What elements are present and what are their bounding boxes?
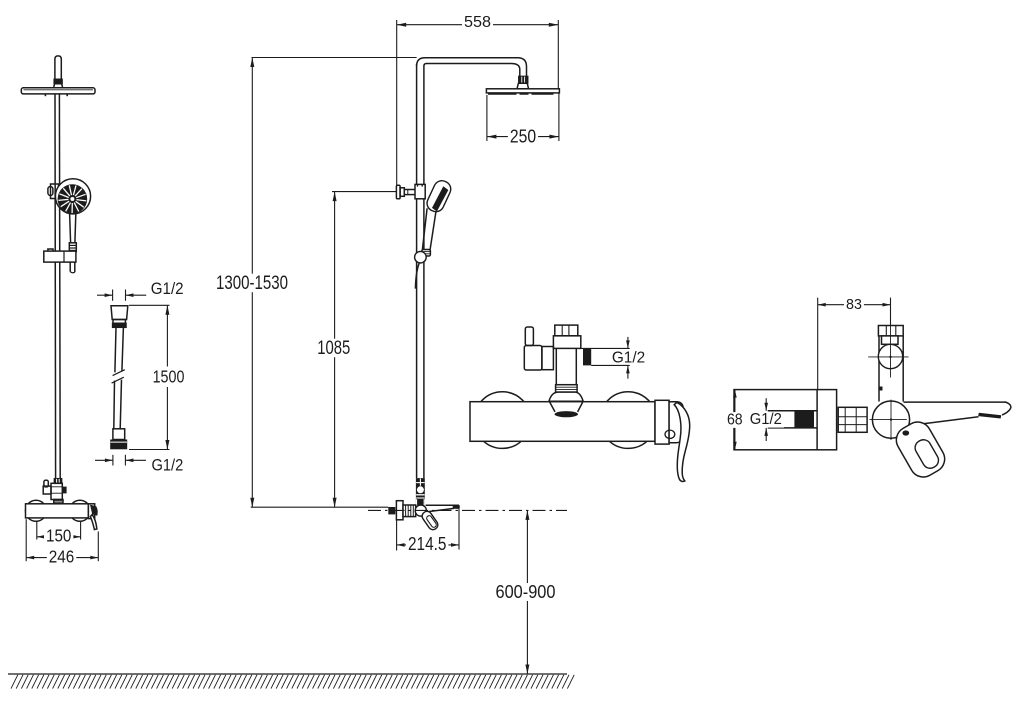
- svg-text:G1/2: G1/2: [152, 457, 184, 475]
- floor line: [8, 673, 567, 675]
- dimension 83 right extension line: [890, 298, 892, 326]
- svg-text:83: 83: [846, 296, 862, 313]
- dimension 83 text: [844, 297, 864, 312]
- slider ball joint: [415, 251, 427, 263]
- dimension 1500 text: [151, 368, 187, 385]
- figure 4 spout top line: [904, 401, 1006, 403]
- figure 1 hand shower handle: [70, 214, 76, 243]
- dimension 600-900 line and arrows: [525, 510, 529, 674]
- dimension 150 extension lines: [37, 522, 81, 540]
- hose top ferrule (dark): [113, 323, 126, 327]
- figure 4 spout aerator (dark): [978, 413, 1001, 419]
- dimension 68 line and arrows: [733, 390, 737, 450]
- svg-text:246: 246: [49, 547, 75, 567]
- svg-text:G1/2: G1/2: [151, 280, 184, 298]
- dimension 250 text: [508, 128, 538, 145]
- hose top G1/2 dimension ticks: [113, 290, 126, 301]
- figure 1 mixer left inlet circle: [26, 500, 47, 521]
- figure 1 hand shower head face circle: [55, 179, 90, 214]
- floor hatching: [11, 675, 574, 689]
- figure 4 cap neck: [882, 336, 899, 344]
- dimension 150 line and arrows: [37, 535, 81, 539]
- riser wall flange: [396, 185, 404, 199]
- figure 1 hand shower wall clamp: [48, 184, 59, 199]
- dimension 558 left extension line: [396, 20, 398, 185]
- hose bottom fitting (dark): [110, 440, 127, 450]
- figure 4 G1/2 text: [748, 412, 784, 428]
- dimension 83 left extension line: [817, 298, 819, 390]
- svg-text:1300-1530: 1300-1530: [216, 272, 288, 294]
- figure 4 G1/2 dimension arrows: [764, 398, 768, 441]
- main riser pipe vertical (front view): [417, 64, 424, 478]
- figure 1 diverter left arm: [43, 486, 51, 494]
- figure 1 overhead shower disc (edge view): [21, 88, 95, 94]
- figure 4 ball joint centerlines: [868, 298, 908, 378]
- figure 1 nub collar (dark): [54, 79, 62, 83]
- dimension 1300-1530 text: [214, 274, 290, 293]
- figure 1 riser pole (double line): [55, 94, 60, 479]
- figure 3 handle lever blade: [674, 402, 690, 481]
- wall outlet stub (dark): [388, 507, 395, 514]
- figure 1 sliding bracket on pole: [44, 249, 76, 262]
- hose lower tube: [114, 380, 122, 429]
- figure 4 handle paddle: [891, 417, 949, 482]
- figure 4 threaded connector: [838, 407, 867, 432]
- hand shower handle (front view): [422, 208, 436, 251]
- figure 3 handle cap: [669, 402, 683, 443]
- dimension 214.5 text: [406, 534, 448, 552]
- figure 4 wall box: [734, 390, 837, 450]
- hand shower hose lower curve: [415, 263, 419, 289]
- dimension 246 line and arrows: [26, 556, 98, 560]
- figure 3 diverter threaded ring: [556, 385, 578, 392]
- figure 4 top cap (threaded): [878, 326, 903, 336]
- dimension 246 extension lines: [26, 519, 98, 561]
- figure 4 housing dark mark: [879, 387, 882, 391]
- svg-text:G1/2: G1/2: [750, 411, 782, 428]
- figure 3 right inlet circle: [600, 392, 657, 449]
- overhead shower nut (hatched): [519, 76, 528, 83]
- figure 1 hose stub below handle: [70, 252, 75, 273]
- dimension 1085 text: [315, 339, 352, 358]
- figure 3 diverter lever knob: [525, 327, 533, 346]
- figure 4 inlet pipe in box: [768, 411, 817, 428]
- spout wall flange: [396, 501, 403, 520]
- riser bottom valve block (dark): [416, 478, 425, 505]
- figure 1 diverter right outlet (dark): [62, 487, 66, 494]
- tub spout aerator (dark): [453, 506, 460, 509]
- figure 3 mixer body bar: [470, 402, 655, 442]
- overhead shower head nozzle band: [488, 93, 554, 95]
- figure 4 spout tip: [1002, 402, 1011, 415]
- dimension 214.5 line and arrows: [397, 543, 459, 547]
- figure 3 diverter lever block: [524, 346, 542, 371]
- hose break marks: [112, 370, 125, 383]
- dimension 150 text: [44, 527, 73, 544]
- figure 4 handle slot: [912, 437, 941, 471]
- spout body circle: [415, 505, 426, 516]
- figure 3 G1/2 extension lines: [581, 348, 630, 365]
- figure 3 handle hole: [665, 430, 675, 438]
- figure 1 hand shower handle end fitting: [69, 243, 76, 252]
- svg-text:G1/2: G1/2: [612, 350, 645, 367]
- dimension 600-900 text: [494, 584, 558, 601]
- svg-text:68: 68: [727, 412, 743, 429]
- figure 1 diverter threaded neck: [54, 500, 63, 504]
- figure 3 spout mouth (dark ellipse): [555, 411, 578, 417]
- dimension 1085 line and arrows: [333, 192, 337, 508]
- svg-text:1500: 1500: [153, 367, 185, 387]
- figure 1 diverter cross body: [51, 483, 62, 499]
- hose upper tube: [115, 327, 124, 372]
- hand shower handle fitting: [422, 250, 431, 257]
- figure 1 disc underside nozzle ticks: [45, 94, 67, 96]
- figure 1 mixer handle lever blade: [90, 515, 97, 530]
- figure 1 mixer handle wedge (dark): [90, 505, 98, 516]
- figure 4 valve body circle: [872, 401, 909, 438]
- figure 3 diverter neck: [556, 348, 576, 384]
- bath centerline (dash-dot): [368, 509, 567, 511]
- overhead shower joint cone: [517, 83, 529, 89]
- spout lever slot: [426, 515, 438, 529]
- figure 4 spout bottom line: [909, 417, 979, 426]
- dimension 83 line and arrows: [818, 303, 891, 307]
- riser top bend and horizontal arm: [417, 58, 527, 77]
- hose bottom G1/2 dimension arrows: [95, 459, 146, 463]
- svg-text:150: 150: [46, 526, 72, 546]
- tub spout nozzle: [426, 505, 459, 512]
- dimension 68 text: [725, 412, 745, 428]
- svg-text:600-900: 600-900: [496, 582, 556, 602]
- figure 3 left inlet circle: [474, 392, 531, 449]
- svg-text:558: 558: [464, 14, 491, 31]
- dimension 558 text: [462, 15, 493, 31]
- svg-text:1085: 1085: [317, 337, 350, 359]
- dimension 246 text: [47, 548, 77, 565]
- figure 1 diverter left knob: [44, 480, 48, 487]
- figure 3 escutcheon bell: [549, 392, 583, 401]
- figure 3 diverter lever arm: [542, 347, 554, 370]
- dimension 558 right extension line: [557, 20, 559, 89]
- figure 1 pole lower fitting (hatched): [54, 479, 61, 484]
- dimension 1085 top reference line: [332, 191, 396, 193]
- riser wall nipple: [404, 190, 415, 195]
- dimension 250 line and arrows: [487, 135, 559, 139]
- figure 1 head joint cone: [54, 84, 63, 88]
- dimension 1500 line and arrows: [165, 305, 169, 449]
- figure 1 mixer handle plate: [88, 504, 94, 519]
- figure 3 G1/2 dimension arrows: [626, 337, 630, 379]
- dimension 1300-1530 line and arrows: [250, 58, 254, 508]
- svg-text:250: 250: [510, 127, 536, 147]
- figure 1 mixer body bar: [26, 504, 89, 518]
- dimension 1500 top reference line: [129, 304, 170, 306]
- dimension 250 extension lines: [487, 93, 559, 141]
- figure 4 wall box divider: [816, 390, 818, 450]
- dimension 1300-1530 top reference line: [252, 57, 417, 59]
- figure 1 shower column side view - top pipe nub: [55, 56, 61, 80]
- figure 4 valve housing: [879, 336, 903, 402]
- figure 4 valve centerlines: [870, 400, 907, 440]
- figure 1 mixer right inlet circle: [69, 500, 90, 521]
- figure 3 diverter top cap (threaded): [555, 325, 578, 336]
- overhead shower head (front view): [486, 89, 559, 93]
- figure 4 handle-valve dark wedge: [902, 430, 909, 435]
- figure 3 handle plate: [655, 400, 669, 444]
- hand shower head edge shading (dark): [432, 186, 448, 211]
- hose bottom collar: [113, 429, 125, 440]
- figure 4 ball joint circle: [878, 344, 902, 368]
- figure 3 diverter outlet thread (dark): [583, 349, 591, 366]
- figure 4 inlet pipe thread (dark): [794, 411, 814, 428]
- riser slider block: [415, 184, 425, 198]
- figure 3 spout outlet below: [550, 402, 583, 412]
- hand shower head in holder (body): [424, 178, 453, 214]
- svg-text:214.5: 214.5: [408, 533, 446, 554]
- hose bottom G1/2 dimension ticks: [113, 455, 126, 466]
- dimension 1500 bottom reference line: [129, 449, 170, 451]
- dimension 214.5 extension lines: [397, 508, 459, 550]
- spout lever handle: [420, 510, 439, 532]
- hose top conical fitting: [111, 306, 128, 324]
- figure 3 diverter body: [553, 336, 580, 349]
- dimension 558 line and arrows: [397, 23, 559, 27]
- spout threaded nipple: [403, 505, 416, 517]
- bottom reference line to wall outlet: [251, 506, 389, 508]
- hose top G1/2 dimension arrows: [97, 293, 146, 297]
